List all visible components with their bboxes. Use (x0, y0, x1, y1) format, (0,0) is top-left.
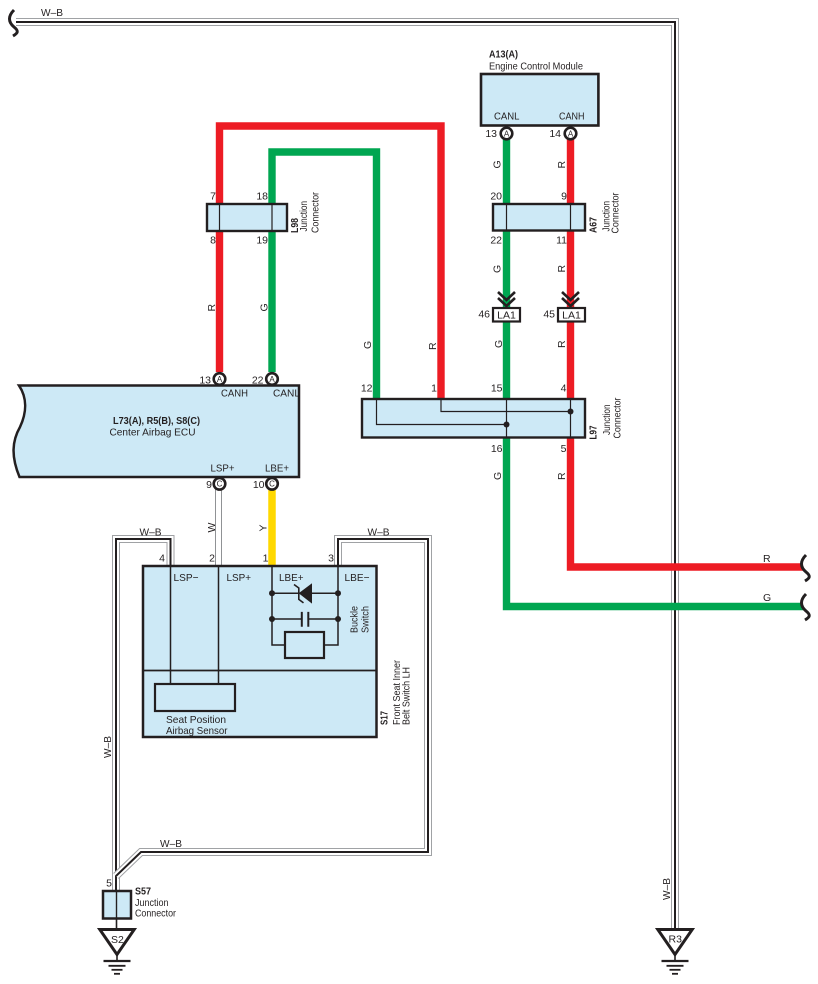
svg-text:S17: S17 (379, 711, 391, 725)
ECU pin 9 circle C (206, 478, 225, 491)
svg-text:7: 7 (210, 191, 216, 203)
svg-text:R3: R3 (669, 934, 683, 946)
continuation squiggle green right (802, 594, 810, 620)
continuation squiggle top left (10, 10, 18, 36)
svg-text:G: G (492, 160, 504, 168)
shield chevrons above LA1 left (498, 292, 515, 306)
ECM pin 14 circle A (549, 128, 576, 140)
zener diode in buckle switch (294, 584, 312, 603)
svg-text:S57: S57 (135, 886, 151, 898)
buckle switch rectangle (285, 632, 324, 658)
S17 internal wires LSP- and LSP+ to sensor (171, 566, 219, 684)
svg-text:5: 5 (561, 443, 567, 455)
continuation squiggle red right (802, 555, 810, 581)
svg-text:Center Airbag ECU: Center Airbag ECU (110, 427, 196, 439)
svg-text:19: 19 (256, 235, 268, 247)
svg-text:A67: A67 (588, 217, 600, 233)
svg-text:16: 16 (491, 443, 503, 455)
svg-text:18: 18 (256, 191, 268, 203)
svg-text:LBE−: LBE− (345, 572, 370, 584)
svg-text:14: 14 (549, 128, 561, 140)
svg-text:LSP+: LSP+ (211, 463, 235, 475)
svg-text:4: 4 (561, 383, 567, 395)
svg-text:CANL: CANL (273, 388, 300, 400)
svg-text:11: 11 (556, 235, 567, 247)
svg-text:A: A (504, 129, 510, 138)
svg-text:W–B: W–B (368, 527, 390, 539)
engine control module A13(A) box (481, 49, 598, 126)
svg-text:Connector: Connector (310, 192, 322, 233)
svg-text:10: 10 (253, 479, 265, 491)
svg-text:46: 46 (478, 309, 490, 321)
svg-text:Belt Switch LH: Belt Switch LH (401, 667, 413, 725)
svg-text:R: R (427, 342, 439, 350)
svg-text:G: G (362, 341, 374, 349)
junction node dots diode row (269, 590, 275, 596)
svg-text:5: 5 (106, 878, 112, 890)
svg-text:W–B: W–B (160, 838, 182, 850)
svg-text:LA1: LA1 (562, 310, 581, 322)
svg-text:CANL: CANL (494, 111, 520, 123)
svg-text:4: 4 (159, 553, 165, 565)
svg-text:A13(A): A13(A) (489, 49, 518, 61)
svg-text:W–B: W–B (41, 7, 63, 19)
ECU pin 10 circle C (253, 478, 278, 491)
svg-text:LSP−: LSP− (174, 572, 199, 584)
wire G green: ECU pin 22 up over to L97 pin 12 (272, 152, 377, 399)
svg-text:Airbag Sensor: Airbag Sensor (166, 725, 228, 737)
svg-text:L73(A), R5(B), S8(C): L73(A), R5(B), S8(C) (113, 415, 200, 427)
svg-text:1: 1 (431, 383, 437, 395)
svg-text:W–B: W–B (140, 527, 162, 539)
wire W-B top/right from top-left continuation to R3 ground (16, 22, 675, 930)
svg-text:A: A (568, 129, 574, 138)
svg-text:CANH: CANH (221, 388, 248, 400)
svg-text:R: R (556, 265, 568, 273)
svg-text:9: 9 (561, 191, 567, 203)
svg-text:1: 1 (263, 553, 269, 565)
svg-text:W–B: W–B (661, 878, 673, 900)
svg-text:Connector: Connector (612, 397, 624, 438)
svg-text:R: R (556, 340, 568, 348)
seat position airbag sensor rectangle (155, 684, 235, 737)
S17 capacitor row wire (272, 618, 338, 620)
svg-text:R: R (206, 304, 218, 312)
svg-text:R: R (556, 472, 568, 480)
svg-text:C: C (217, 480, 223, 489)
svg-text:3: 3 (328, 553, 334, 565)
wire S57 to S2 triangle (116, 919, 118, 930)
ECU pin 13 circle A (199, 373, 225, 386)
ground triangle S2 (100, 930, 134, 955)
svg-text:LSP+: LSP+ (227, 572, 252, 584)
svg-text:20: 20 (490, 191, 502, 203)
ground symbol R3 (662, 955, 689, 974)
junction connector L97 box (362, 397, 624, 439)
wire W white from ECU pin 9 to S17 pin 2 (215, 488, 222, 566)
svg-text:G: G (259, 303, 271, 311)
svg-text:15: 15 (491, 383, 503, 395)
ground triangle R3 (658, 930, 692, 955)
wire W-B right from S17 pin 3 around to S57 junction (116, 539, 428, 876)
shield chevrons above LA1 right (562, 292, 579, 306)
svg-text:LBE+: LBE+ (265, 463, 289, 475)
svg-text:13: 13 (199, 375, 211, 387)
junction node dots capacitor row (269, 616, 275, 622)
svg-text:G: G (493, 340, 505, 348)
wire R red: ECU pin 13 up over to L97 pin 1 (220, 126, 442, 399)
svg-text:G: G (763, 592, 771, 604)
svg-text:Connector: Connector (610, 192, 622, 233)
svg-text:12: 12 (361, 383, 373, 395)
svg-text:W: W (206, 523, 218, 533)
svg-text:2: 2 (209, 553, 215, 565)
svg-text:CANH: CANH (559, 111, 585, 123)
svg-text:8: 8 (210, 235, 216, 247)
svg-text:L97: L97 (588, 425, 600, 439)
svg-text:A: A (269, 375, 275, 384)
svg-text:22: 22 (252, 375, 264, 387)
wire W-B left from S17 pin 4 down to S57 (116, 539, 171, 891)
svg-text:LA1: LA1 (497, 310, 516, 322)
svg-text:S2: S2 (111, 934, 124, 946)
S17 diode row wire (272, 592, 338, 594)
junction connector L98 box (207, 192, 322, 233)
svg-text:G: G (492, 472, 504, 480)
svg-text:Y: Y (258, 524, 270, 531)
ground symbol S2 (104, 955, 131, 974)
svg-text:R: R (556, 161, 568, 169)
connector LA1 left (pin 46) (478, 308, 520, 322)
svg-text:G: G (492, 265, 504, 273)
svg-text:Switch: Switch (360, 606, 372, 633)
svg-text:A: A (217, 375, 223, 384)
wire G green: ECM CANL pin 13 down through A67, LA1 to L97 pin 15 (503, 138, 510, 399)
svg-text:9: 9 (206, 479, 212, 491)
svg-text:R: R (763, 553, 771, 565)
wire Y yellow from ECU pin 10 to S17 pin 1 (268, 488, 276, 566)
svg-text:45: 45 (543, 309, 555, 321)
wire R red: L97 pin 5 down and right to continuation (571, 438, 804, 568)
junction connector A67 box (493, 192, 622, 233)
ECM pin 13 circle A (485, 128, 512, 140)
connector LA1 right (pin 45) (543, 308, 585, 322)
svg-text:LBE+: LBE+ (279, 572, 304, 584)
svg-text:22: 22 (490, 235, 502, 247)
center airbag ECU box L73(A),R5(B),S8(C) (14, 386, 301, 478)
svg-text:Junction: Junction (298, 201, 310, 232)
capacitor in buckle switch (302, 612, 309, 627)
svg-text:Engine Control Module: Engine Control Module (489, 61, 583, 73)
front seat inner belt switch S17 box (143, 566, 413, 737)
svg-text:W–B: W–B (102, 736, 114, 758)
wire G green: L97 pin 16 down and right to continuation (507, 438, 804, 607)
junction connector S57 (103, 878, 176, 920)
svg-text:13: 13 (485, 128, 497, 140)
S17 internal wires LBE+ and LBE- verticals (272, 566, 338, 645)
ECU pin 22 circle A (252, 373, 278, 386)
svg-text:Connector: Connector (135, 908, 176, 920)
svg-text:C: C (269, 480, 275, 489)
wire R red: ECM CANH pin 14 down through A67, LA1 to L97 pin 4 (567, 138, 574, 399)
